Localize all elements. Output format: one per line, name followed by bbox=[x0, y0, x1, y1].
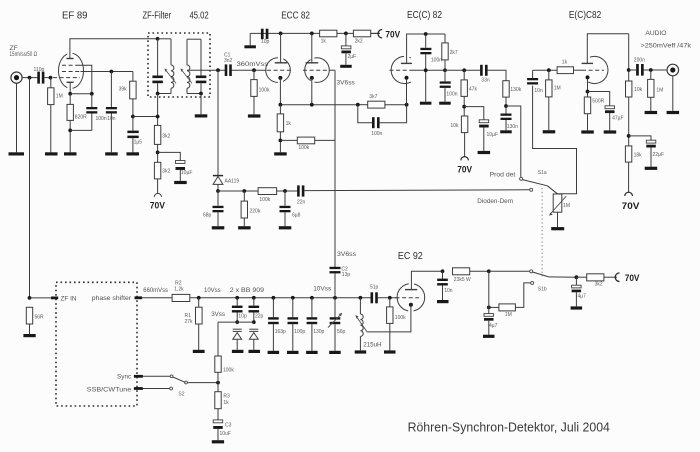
ground pot bbox=[551, 227, 564, 230]
ground 1M grid bbox=[543, 130, 556, 133]
wire Dioden-Dem long run to switch bbox=[304, 189, 530, 192]
node grid junction bbox=[424, 68, 428, 72]
capacitor 100n plate to grid line bbox=[420, 34, 442, 102]
ground 6u8 bbox=[279, 226, 292, 229]
resistor R2 1,2k bbox=[172, 281, 190, 302]
ground input connector bbox=[9, 83, 25, 155]
EC(C)82 plate lead up bbox=[407, 34, 445, 63]
capacitor 10n screen bypass bbox=[106, 72, 117, 153]
svg-text:Sync: Sync bbox=[117, 373, 132, 380]
svg-text:10Vss: 10Vss bbox=[204, 287, 221, 294]
node diode branch bbox=[216, 68, 220, 72]
connector J1 ZF input bbox=[11, 72, 22, 83]
resistor 47k bbox=[461, 70, 477, 116]
svg-text:70V: 70V bbox=[457, 163, 472, 174]
wire pivot to node bbox=[187, 382, 218, 384]
T1 grid dashed bbox=[267, 69, 293, 71]
svg-text:56p: 56p bbox=[337, 329, 346, 335]
svg-text:2k2: 2k2 bbox=[355, 39, 363, 45]
capacitor 68p detector bbox=[203, 191, 224, 226]
capacitor 100p phase2 bbox=[288, 298, 306, 351]
wire 100k fb to 3V6ss line bbox=[315, 139, 335, 141]
svg-text:15mVss/50 Ω: 15mVss/50 Ω bbox=[10, 51, 38, 58]
ground 10n bbox=[105, 152, 118, 155]
svg-text:10p: 10p bbox=[238, 313, 247, 319]
svg-text:ZF IN: ZF IN bbox=[61, 295, 77, 302]
capacitor 100n cathode bypass bbox=[70, 94, 107, 131]
svg-text:100k: 100k bbox=[395, 315, 406, 321]
svg-text:18k: 18k bbox=[634, 153, 643, 159]
capacitor 4uF bbox=[484, 314, 498, 335]
node varicap2 bbox=[252, 296, 256, 300]
wire arm to 4u7 node bbox=[549, 276, 577, 278]
capacitor 33n coupling bbox=[480, 65, 490, 84]
svg-text:3k2: 3k2 bbox=[162, 134, 170, 140]
resistor R1 27k bbox=[185, 298, 203, 350]
wire tank2 to ground bbox=[200, 94, 202, 115]
node ZF IN drop bbox=[28, 296, 32, 300]
ground 22uF bbox=[645, 167, 658, 170]
svg-text:1M: 1M bbox=[505, 312, 512, 318]
capacitor 150p phase1 bbox=[268, 298, 286, 351]
wire 10n to 1k grid stopper bbox=[533, 69, 558, 71]
capacitor 10uF electrolytic bbox=[176, 161, 193, 181]
resistor 2k7 plate load bbox=[442, 34, 458, 70]
svg-text:3V6ss: 3V6ss bbox=[337, 80, 356, 87]
wire Sync to contact bbox=[143, 375, 170, 377]
tank2 cap bottom lead bbox=[200, 83, 202, 93]
wire pot top to 10n drop bbox=[533, 86, 577, 194]
ground 820R bbox=[64, 152, 77, 155]
EF89 grid g2 dashed bbox=[62, 71, 81, 73]
tube EC(C)82 envelope open right bbox=[391, 56, 411, 83]
E(C)C82 grid dashed bbox=[582, 69, 604, 71]
wire cathode to 100n bbox=[70, 93, 92, 95]
node 130k bottom bbox=[504, 104, 508, 108]
node 820R bottom bbox=[68, 129, 72, 133]
node 1M grid bbox=[547, 68, 551, 72]
svg-text:C3: C3 bbox=[225, 423, 232, 429]
capacitor 110p bbox=[34, 67, 45, 84]
resistor 100k grid1 bbox=[251, 70, 270, 114]
wire node down from rail bbox=[488, 271, 490, 313]
wire S1b lower contact to 1M bbox=[515, 283, 530, 308]
tank2 cap top lead bbox=[200, 39, 202, 75]
ground phase1 bbox=[268, 351, 280, 354]
node detector out bbox=[216, 189, 220, 193]
node 4u7 bbox=[575, 275, 579, 279]
ground 10uF bbox=[478, 151, 491, 154]
ground 4u7 bbox=[571, 306, 583, 309]
tube ECC82 triode 1 envelope bbox=[266, 56, 291, 84]
node 6u8 bbox=[283, 189, 287, 193]
svg-text:200n: 200n bbox=[634, 58, 645, 64]
svg-text:4µ7: 4µ7 bbox=[578, 294, 587, 300]
resistor 2k2 supply bbox=[353, 30, 380, 44]
svg-text:33n: 33n bbox=[481, 77, 490, 83]
svg-text:27k: 27k bbox=[185, 319, 194, 325]
resistor 10k output bbox=[626, 81, 643, 146]
wire to ZF IN port bbox=[30, 297, 52, 299]
wire pot to ground bbox=[557, 212, 559, 227]
switch S1b contact upper bbox=[530, 270, 533, 273]
svg-text:3k2: 3k2 bbox=[595, 282, 603, 288]
port bar phase shifter out bbox=[135, 296, 143, 299]
3V6ss vertical line bbox=[334, 70, 336, 267]
wire T2 grid to 3V6ss line bbox=[330, 69, 335, 71]
svg-text:1M: 1M bbox=[656, 87, 663, 93]
ground C3 bbox=[212, 440, 224, 443]
node cathode bbox=[68, 92, 72, 96]
svg-text:1M: 1M bbox=[563, 203, 570, 209]
capacitor C2 13p injection bbox=[330, 267, 351, 298]
EF89 cathode bar bbox=[67, 81, 74, 83]
wire 51p to grid node bbox=[378, 297, 398, 299]
tube E(C)C82 envelope open left bbox=[588, 56, 608, 83]
T2 plate bar bbox=[306, 62, 319, 64]
port bar ZF IN bbox=[51, 297, 58, 300]
svg-text:10k: 10k bbox=[634, 87, 643, 93]
ground tank2 bbox=[195, 114, 208, 117]
switch S2 arm bbox=[173, 377, 186, 382]
ZF filter dotted box bbox=[148, 33, 210, 97]
resistor 3k2 lower bbox=[154, 162, 170, 193]
E(C)C82 plate bar bbox=[582, 62, 593, 64]
svg-text:S2: S2 bbox=[178, 392, 184, 398]
ground R1 bbox=[193, 350, 205, 353]
EF89 grid g3 dashed bbox=[62, 64, 77, 66]
wire g3 to cathode node bbox=[77, 65, 92, 94]
T2 cathode lead bbox=[311, 78, 313, 105]
svg-text:E(C)C82: E(C)C82 bbox=[569, 10, 602, 21]
wire filter output tap bbox=[187, 69, 226, 71]
envelope gap for plate lead bbox=[585, 55, 590, 59]
node varicap1 bbox=[235, 296, 239, 300]
tube ECC82 triode 2 envelope bbox=[305, 56, 330, 84]
switch S1b arm bbox=[533, 272, 549, 277]
resistor 18k to 70V bbox=[625, 146, 642, 193]
svg-text:100n: 100n bbox=[446, 91, 457, 97]
wire node to 10uF bbox=[464, 107, 484, 120]
wire plate rail down to output node bbox=[628, 34, 630, 81]
EF89 grid g1 dashed bbox=[53, 77, 80, 79]
switch S2 pivot bbox=[185, 381, 188, 384]
node input branch to ZF IN bbox=[28, 76, 32, 80]
svg-text:130n: 130n bbox=[507, 124, 518, 130]
ground 1M bbox=[45, 152, 58, 155]
svg-text:70V: 70V bbox=[625, 272, 640, 283]
node output bbox=[627, 68, 631, 72]
node cathode cap bbox=[90, 92, 94, 96]
capacitor 10n AF input bbox=[527, 70, 543, 94]
resistor 130k det load bbox=[503, 81, 522, 114]
svg-text:1k: 1k bbox=[286, 121, 292, 127]
node cathode T1 bbox=[279, 103, 283, 107]
switch S1b contact lower bbox=[531, 281, 534, 284]
svg-text:100n: 100n bbox=[371, 131, 382, 137]
switch gang dotted link S1a-S1b bbox=[541, 188, 543, 276]
T2 grid dashed bbox=[303, 69, 330, 71]
node tank2 bottom bbox=[199, 92, 203, 96]
resistor 3k2 osc supply bbox=[576, 274, 617, 288]
resistor 500R cathode bbox=[584, 97, 604, 130]
svg-text:100k: 100k bbox=[223, 368, 234, 374]
ground phase2 bbox=[287, 351, 299, 354]
svg-text:AUDIO: AUDIO bbox=[645, 30, 666, 37]
T1 cathode lead bbox=[279, 78, 281, 105]
ground output shunt bbox=[439, 102, 451, 105]
node R1 bbox=[197, 296, 201, 300]
EF89 cathode lead bbox=[69, 82, 71, 94]
ground varicap1 bbox=[232, 350, 244, 353]
ground audio connector bbox=[667, 111, 680, 114]
svg-text:1,2k: 1,2k bbox=[174, 286, 184, 292]
ground stub rail left bbox=[244, 33, 256, 48]
svg-text:660mVss: 660mVss bbox=[143, 287, 168, 294]
switch S1a contact lower bbox=[530, 188, 533, 191]
wire SSB to contact bbox=[143, 388, 170, 390]
svg-text:EC 92: EC 92 bbox=[398, 251, 423, 262]
wire C110p to grid node bbox=[44, 77, 50, 79]
varicap anode rail wire bbox=[218, 321, 254, 323]
T2 cathode dot bbox=[310, 76, 314, 80]
svg-text:47µF: 47µF bbox=[612, 116, 624, 122]
EC92 grid dashed bbox=[396, 297, 420, 299]
capacitor 10uF decoupling bbox=[479, 120, 498, 151]
capacitor 22p varicap2 coupling bbox=[249, 298, 264, 322]
wire 39k node to divider bbox=[133, 116, 158, 118]
supply terminal 70V top bbox=[378, 29, 401, 40]
ground 4uF bbox=[483, 335, 495, 338]
resistor 39k screen feed bbox=[119, 72, 136, 117]
wire detector node right bbox=[218, 190, 258, 192]
svg-text:S1a: S1a bbox=[538, 170, 547, 176]
EF89 plate bar bbox=[66, 58, 73, 60]
EC(C)82 cathode dot bbox=[405, 76, 409, 80]
node coil tap rail bbox=[359, 296, 363, 300]
node phase cap2 bbox=[291, 296, 295, 300]
node varicap2 anode rail bbox=[252, 320, 256, 324]
wire 3k7 to cathode node bbox=[385, 104, 407, 106]
node plate 10n bbox=[441, 269, 445, 273]
T2 plate lead bbox=[311, 33, 313, 62]
EC(C)82 grid dashed bbox=[390, 69, 413, 71]
supply terminal 70V oscillator bbox=[615, 272, 640, 283]
svg-text:70V: 70V bbox=[150, 199, 166, 210]
node varicap1 anode rail bbox=[235, 320, 239, 324]
capacitor 22n AF coupling bbox=[297, 185, 306, 205]
tank1 cap bottom lead bbox=[157, 83, 159, 93]
node cathode bbox=[586, 90, 590, 94]
ground 215uH bbox=[355, 350, 367, 353]
node divider top bbox=[156, 115, 160, 119]
svg-text:163p: 163p bbox=[275, 329, 286, 335]
svg-text:10n: 10n bbox=[107, 116, 116, 122]
svg-text:500R: 500R bbox=[592, 99, 604, 105]
wire tank1 to divider node bbox=[157, 94, 159, 126]
svg-text:130k: 130k bbox=[510, 87, 521, 93]
svg-text:Röhren-Synchron-Detektor, Juli: Röhren-Synchron-Detektor, Juli 2004 bbox=[408, 421, 610, 435]
ground 10n osc bbox=[437, 300, 449, 303]
svg-text:1M: 1M bbox=[554, 86, 561, 92]
svg-text:EC(C) 82: EC(C) 82 bbox=[407, 10, 442, 21]
svg-text:ECC 82: ECC 82 bbox=[281, 11, 310, 22]
capacitor tank1 bbox=[152, 76, 163, 84]
resistor 100k feedback bbox=[297, 137, 314, 151]
capacitor 1u5 screen decoupling bbox=[127, 117, 142, 153]
tank2 top wire bbox=[187, 38, 201, 40]
wire input to C 110p bbox=[22, 77, 37, 79]
svg-text:70V: 70V bbox=[385, 29, 400, 40]
svg-text:70V: 70V bbox=[622, 200, 641, 211]
node T2 plate bbox=[310, 32, 314, 36]
inductor tank1 coil bbox=[164, 39, 176, 94]
node S2 varicap feed bbox=[216, 381, 220, 385]
T1 plate lead bbox=[280, 33, 282, 62]
svg-text:3V6ss: 3V6ss bbox=[337, 251, 357, 258]
svg-text:3k2: 3k2 bbox=[162, 169, 170, 175]
capacitor 22uF decoupling bbox=[629, 136, 664, 167]
svg-text:1k: 1k bbox=[223, 400, 229, 406]
node divider mid bbox=[156, 151, 160, 155]
oscillator rail bbox=[237, 297, 371, 299]
capacitor tank2 bbox=[196, 76, 207, 84]
svg-text:S1b: S1b bbox=[538, 287, 547, 293]
svg-text:2µF: 2µF bbox=[348, 54, 357, 60]
svg-text:22n: 22n bbox=[297, 199, 306, 205]
svg-text:10Vss: 10Vss bbox=[313, 286, 332, 293]
svg-text:10uF: 10uF bbox=[220, 431, 231, 437]
node 1M 4uF bbox=[487, 306, 491, 310]
resistor 1M grid leak bbox=[546, 70, 561, 130]
capacitor C3 10uF bbox=[213, 420, 231, 440]
svg-text:3Vss: 3Vss bbox=[211, 311, 225, 318]
resistor 1k cathode bbox=[277, 105, 291, 153]
node phase cap1 bbox=[272, 296, 276, 300]
tank1 top wire bbox=[158, 38, 171, 40]
tank1 bottom wire bbox=[158, 93, 171, 95]
ground 47uF bbox=[604, 130, 617, 133]
ground 1u5 bbox=[127, 152, 140, 155]
wire grid to 100n node bbox=[412, 69, 445, 71]
ground trimmer bbox=[329, 351, 341, 354]
capacitor C1 3n2 bbox=[224, 52, 233, 76]
svg-text:EF 89: EF 89 bbox=[62, 11, 88, 22]
svg-text:4µ7: 4µ7 bbox=[489, 323, 498, 329]
resistor 1k rail bbox=[320, 30, 337, 44]
svg-text:phase shifter: phase shifter bbox=[92, 295, 132, 302]
capacitor 100n det shunt bbox=[501, 114, 519, 131]
ground 220k bbox=[238, 226, 251, 229]
svg-text:100k: 100k bbox=[298, 145, 309, 151]
capacitor 100n output shunt bbox=[440, 70, 458, 101]
connector audio output bbox=[667, 64, 679, 111]
svg-text:2 x BB 909: 2 x BB 909 bbox=[230, 287, 264, 294]
capacitor 10n osc decoupling bbox=[437, 271, 453, 300]
ground 68p bbox=[212, 226, 225, 229]
wire g2 to screen network bbox=[81, 71, 133, 73]
port bar Sync bbox=[134, 375, 143, 378]
wire cathode rail to 3k7 bbox=[358, 104, 368, 106]
ground 10uF bbox=[174, 181, 187, 184]
resistor 1M grid leak bbox=[48, 78, 63, 153]
ground det shunt bbox=[500, 130, 512, 133]
tube EC92 envelope bbox=[397, 282, 425, 313]
node 47k bottom bbox=[462, 105, 466, 109]
resistor 100k osc grid leak bbox=[387, 298, 407, 351]
svg-text:22p: 22p bbox=[255, 313, 264, 319]
EC(C)82 cathode lead bbox=[406, 79, 408, 105]
capacitor 10p varicap1 coupling bbox=[232, 298, 247, 322]
wire fb node to 100k bbox=[280, 139, 297, 141]
svg-text:51p: 51p bbox=[370, 285, 379, 291]
E(C)C82 plate lead to rail bbox=[587, 34, 628, 64]
node grid 100k bbox=[388, 296, 392, 300]
svg-text:R3: R3 bbox=[223, 394, 230, 400]
ground 100n plate cap bbox=[420, 102, 432, 105]
capacitor 51p osc grid bbox=[370, 285, 379, 304]
cathode rail bbox=[280, 104, 357, 106]
supply terminal 70V audio bbox=[622, 192, 641, 211]
svg-text:AA119: AA119 bbox=[225, 178, 240, 184]
resistor 23k 5W bbox=[453, 268, 489, 283]
node grid g1 EF89 bbox=[49, 76, 53, 80]
ground 2uF bbox=[340, 65, 352, 68]
resistor 220k load bbox=[241, 191, 261, 226]
wire node to S1b contact bbox=[489, 270, 530, 272]
ground phase3 bbox=[306, 351, 318, 354]
switch S1a contact upper bbox=[520, 177, 523, 180]
svg-text:13p: 13p bbox=[342, 272, 351, 278]
svg-text:100k: 100k bbox=[259, 87, 270, 93]
svg-text:6µ8: 6µ8 bbox=[292, 212, 301, 218]
wire divider mid to 10uF bbox=[158, 152, 181, 160]
capacitor 130p phase3 bbox=[307, 298, 325, 351]
node cathode T2 bbox=[310, 103, 314, 107]
ground 100k osc bbox=[384, 350, 396, 353]
phase shifter dotted box bbox=[56, 282, 137, 406]
svg-text:>250mVeff /47k: >250mVeff /47k bbox=[641, 43, 692, 50]
svg-text:1M: 1M bbox=[56, 94, 63, 100]
port bar SSB bbox=[134, 387, 143, 390]
tank2 bottom wire bbox=[187, 93, 201, 95]
resistor 1M bleeder bbox=[489, 304, 516, 318]
inductor 215uH tank coil bbox=[355, 298, 381, 351]
ground varicap2 bbox=[249, 350, 261, 353]
node tank1 bottom bbox=[156, 92, 160, 96]
tube EF89 envelope bbox=[59, 52, 84, 90]
supply terminal 70V product det bbox=[457, 157, 472, 175]
svg-text:Dioden-Dem: Dioden-Dem bbox=[477, 198, 513, 205]
E(C)C82 cathode lead bbox=[587, 79, 589, 97]
node plate rail 100n bbox=[424, 32, 428, 36]
resistor 3k7 cathode link bbox=[368, 94, 385, 108]
node 2k7 bottom bbox=[443, 68, 447, 72]
inductor tank2 coil bbox=[180, 39, 192, 93]
svg-text:56R: 56R bbox=[35, 314, 45, 320]
svg-text:1µ5: 1µ5 bbox=[134, 140, 143, 146]
ground 500R bbox=[581, 130, 594, 133]
node S1b feed bbox=[487, 269, 491, 273]
switch S2 contact ssb bbox=[170, 387, 173, 390]
node screen cap junction bbox=[110, 70, 114, 74]
resistor 1k grid stopper bbox=[557, 60, 573, 74]
resistor 3k2 upper bbox=[154, 125, 170, 162]
svg-text:100n: 100n bbox=[431, 58, 442, 64]
T1 plate bar bbox=[275, 62, 288, 64]
resistor 100k sync feed bbox=[215, 356, 235, 383]
node phase cap3 bbox=[310, 296, 314, 300]
